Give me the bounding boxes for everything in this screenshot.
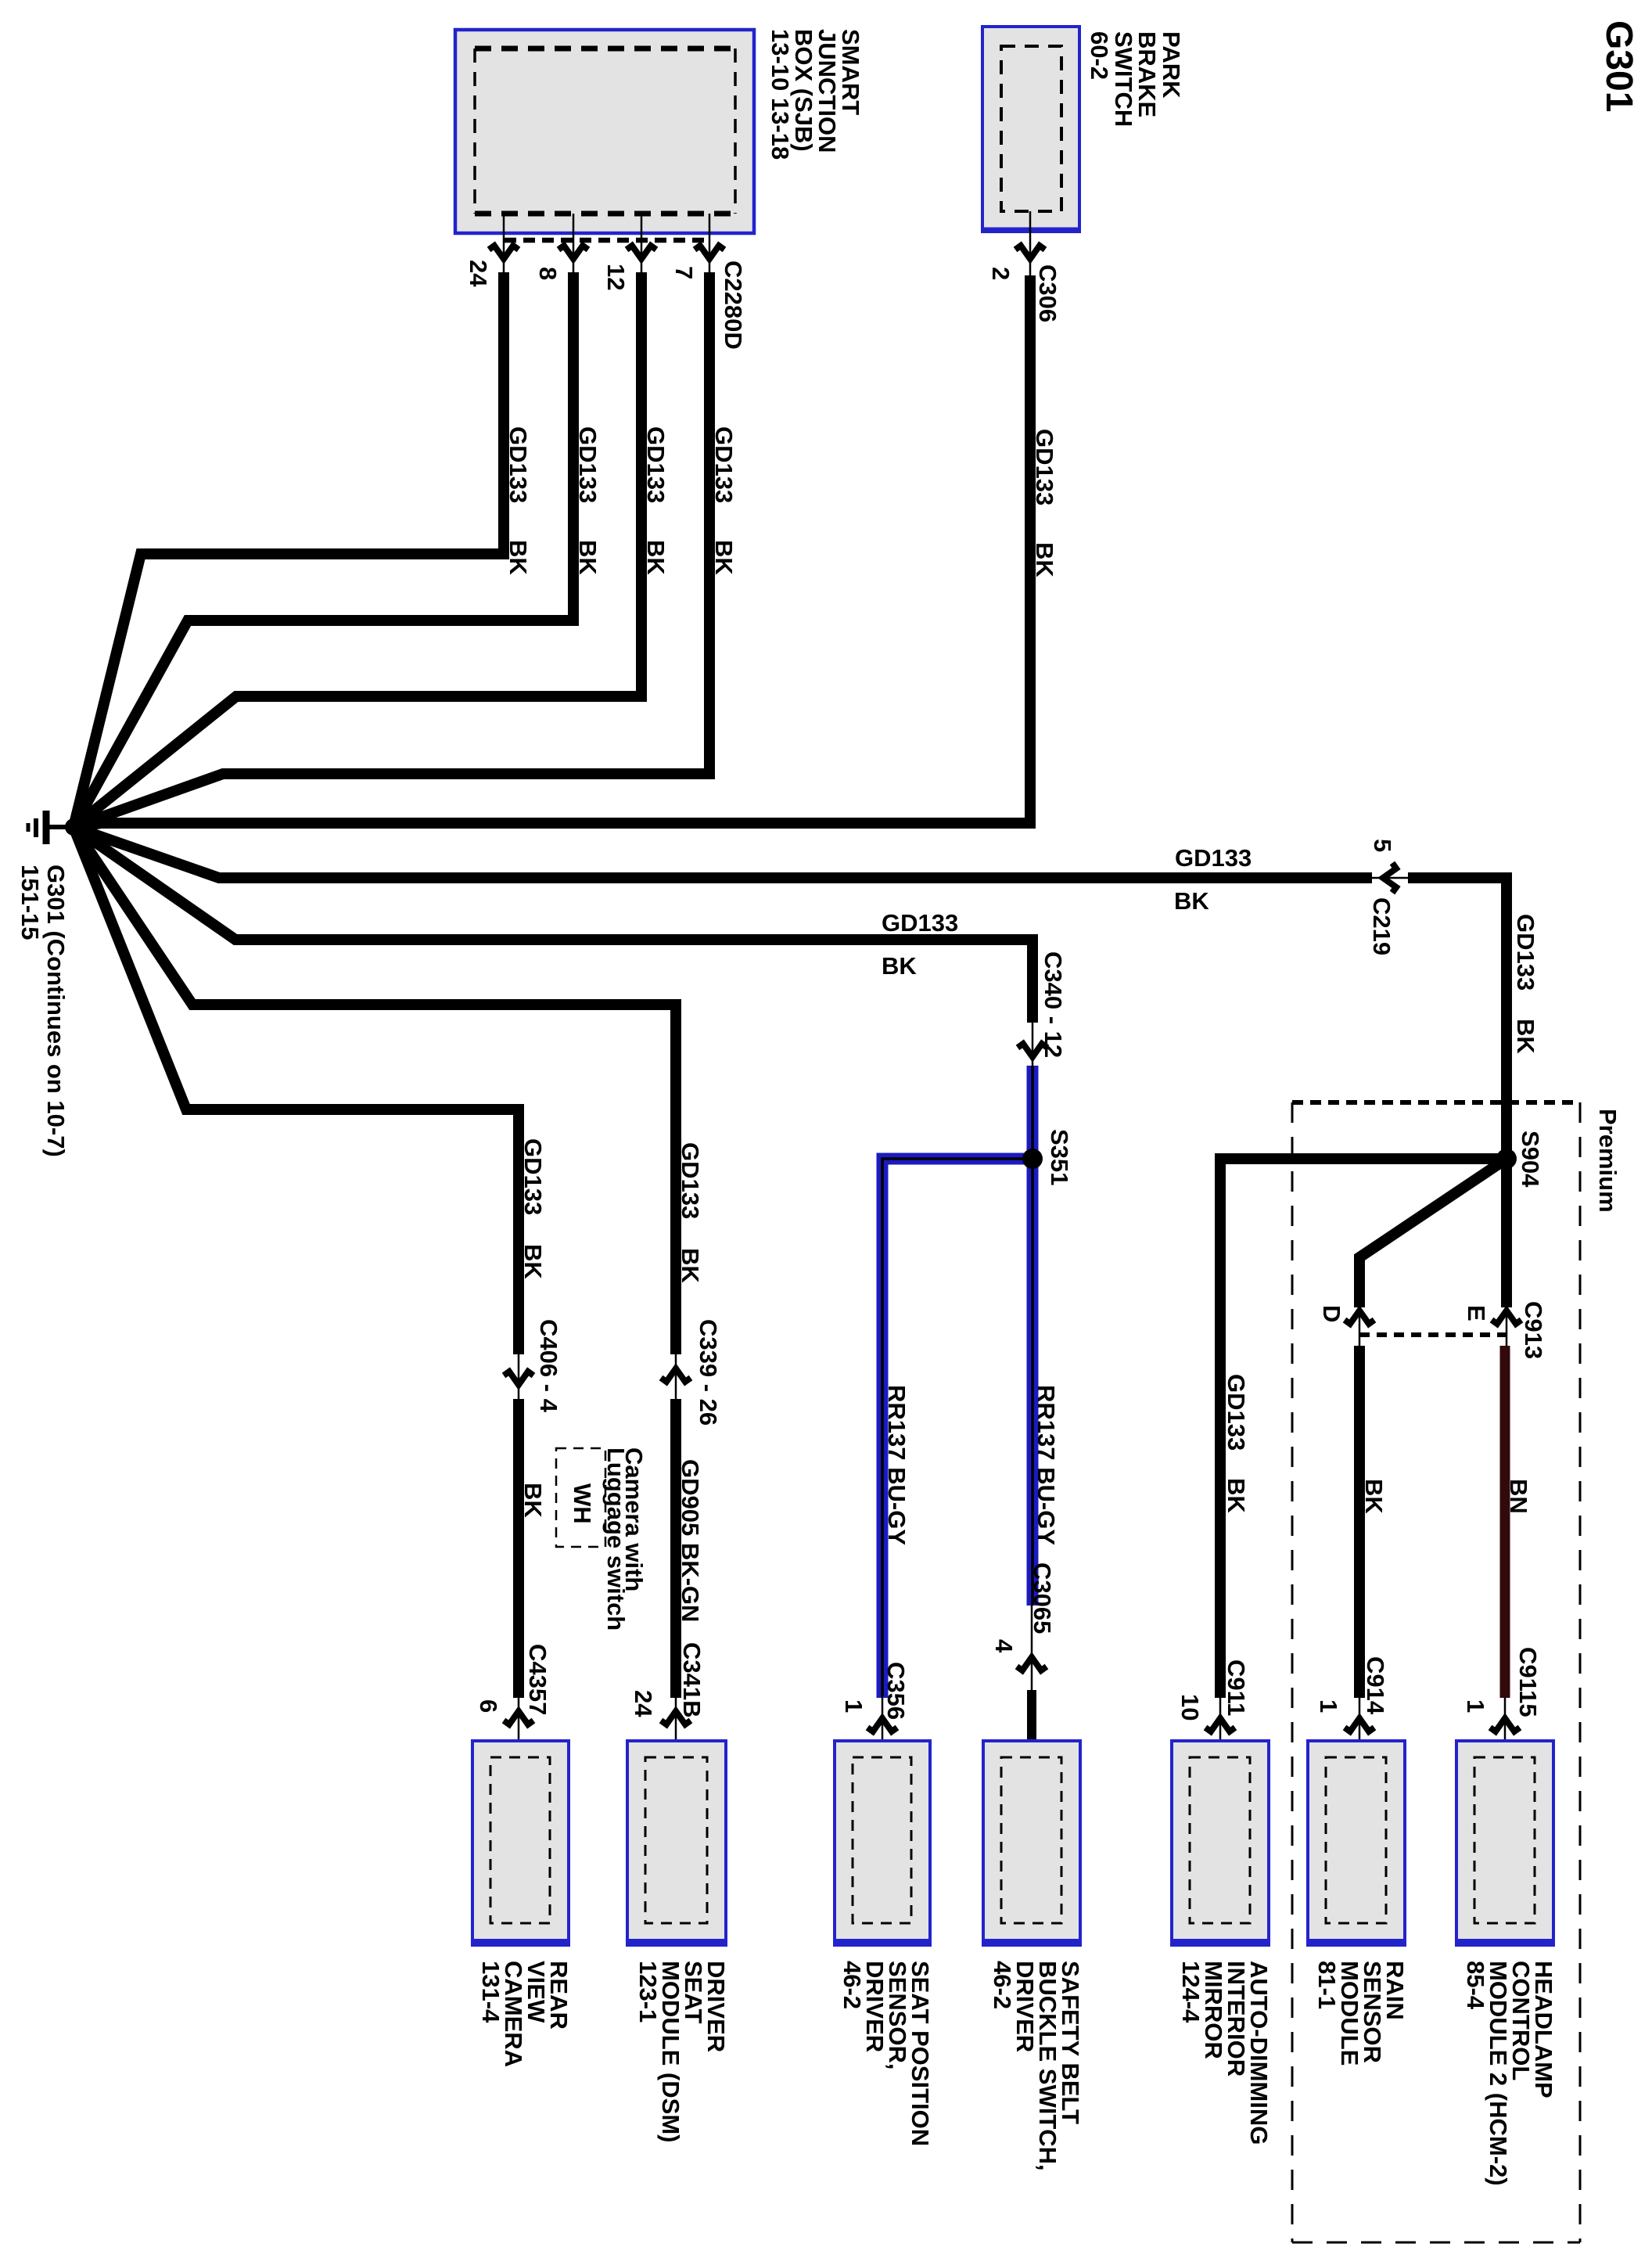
svg-text:C306: C306	[1034, 264, 1061, 322]
label SMART JUNCTION BOX (SJB) 13-10 13-18	[767, 29, 864, 160]
svg-text:85-4: 85-4	[1462, 1961, 1489, 2010]
component box Rear View Camera 131-4	[472, 1741, 569, 1945]
connector C219 pin 5 in-line arrow	[1368, 839, 1408, 955]
option box WH	[556, 1448, 605, 1547]
connector C406 pin 4 in-line arrow	[504, 1319, 562, 1413]
svg-text:C911: C911	[1223, 1659, 1250, 1716]
connector C911 pin 10 arrow	[1176, 1659, 1250, 1760]
svg-text:BK: BK	[882, 952, 917, 980]
wire GD133 BK from SJB pin 8 to G301	[74, 272, 573, 827]
svg-text:BK: BK	[1031, 542, 1058, 577]
svg-text:7: 7	[670, 266, 698, 279]
label GD133 BK (mirror wire)	[1223, 1374, 1250, 1513]
svg-text:BK: BK	[519, 1483, 547, 1518]
svg-text:BK: BK	[710, 540, 738, 575]
svg-text:BK: BK	[1174, 887, 1209, 915]
connector C9115 pin 1 arrow	[1462, 1647, 1542, 1760]
svg-text:GD133: GD133	[1223, 1374, 1250, 1451]
svg-text:C340 - 12: C340 - 12	[1040, 951, 1067, 1058]
wire GD133 BK from SJB pin 24 to G301	[74, 272, 504, 827]
svg-text:C356: C356	[882, 1662, 910, 1720]
svg-text:C3065: C3065	[1029, 1562, 1056, 1634]
svg-text:Luggage switch: Luggage switch	[602, 1447, 630, 1631]
wire GD905 BK-GN from C339 to DSM	[670, 1399, 681, 1698]
svg-text:1: 1	[1315, 1699, 1342, 1713]
option region box Premium (dashed)	[1292, 1102, 1580, 2242]
label GD133 BK (camera wire)	[519, 1138, 547, 1279]
svg-text:BK: BK	[642, 540, 670, 575]
svg-text:BK: BK	[677, 1248, 704, 1283]
svg-text:BK: BK	[574, 540, 602, 575]
svg-text:24: 24	[630, 1690, 657, 1717]
svg-text:C2280D: C2280D	[720, 261, 747, 350]
connector C3065 pin 4 arrow	[990, 1562, 1056, 1690]
label GD133 BK (DSM wire)	[677, 1142, 704, 1283]
svg-text:BN: BN	[1505, 1479, 1532, 1514]
connector C913 cavity E arrow	[1463, 1301, 1547, 1359]
component box Headlamp Control Module 2 (HCM-2) 85-4	[1456, 1741, 1553, 1945]
connector C340 pin 12 in-line arrow	[1018, 951, 1067, 1067]
svg-text:S351: S351	[1046, 1129, 1073, 1185]
wire GD133 BK from SJB pin 7 to G301	[74, 272, 709, 827]
svg-text:151-15: 151-15	[16, 865, 44, 940]
label PARK BRAKE SWITCH 60-2	[1086, 31, 1185, 127]
svg-text:GD133: GD133	[642, 426, 670, 503]
connector C913 dashed tie line	[1359, 1332, 1507, 1337]
svg-text:S904: S904	[1517, 1131, 1544, 1188]
svg-text:BK: BK	[519, 1244, 547, 1279]
wire BK from C913-D to rain sensor C914	[1354, 1346, 1365, 1698]
pin 8 of SJB connector C2280D	[534, 214, 588, 280]
pin 2 and connector C306	[987, 211, 1061, 322]
svg-text:Premium: Premium	[1594, 1109, 1621, 1213]
label GD133 BK (pin 24 wire)	[505, 426, 532, 575]
svg-text:RR137 BU-GY: RR137 BU-GY	[1032, 1385, 1060, 1545]
connector C341B pin 24 arrow	[630, 1642, 706, 1760]
label GD133 BK (pin 7 wire)	[710, 426, 738, 575]
connector C913 cavity D arrow	[1318, 1305, 1374, 1346]
svg-text:60-2: 60-2	[1086, 31, 1113, 80]
svg-text:81-1: 81-1	[1313, 1961, 1341, 2009]
svg-text:6: 6	[475, 1699, 502, 1713]
svg-text:G301 (Continues on 10-7): G301 (Continues on 10-7)	[42, 865, 70, 1157]
svg-text:1: 1	[840, 1699, 867, 1713]
svg-text:GD905 BK-GN: GD905 BK-GN	[677, 1459, 704, 1622]
svg-text:WH: WH	[569, 1483, 596, 1524]
connector C914 pin 1 arrow	[1315, 1656, 1389, 1760]
svg-text:24: 24	[465, 260, 492, 287]
wire GD133 BK from G301 to C219	[74, 827, 1372, 878]
wire from S904 down to C913 cavity E	[1501, 1159, 1512, 1307]
svg-text:GD133: GD133	[1175, 844, 1252, 872]
svg-text:10: 10	[1176, 1694, 1204, 1721]
pin 24 of SJB connector C2280D	[465, 214, 519, 287]
svg-text:BK: BK	[1512, 1019, 1539, 1054]
svg-text:123-1: 123-1	[634, 1961, 662, 2023]
label Rear View Camera 131-4	[477, 1961, 573, 2067]
svg-text:GD133: GD133	[1512, 914, 1539, 991]
connector C2280D dashed bus line	[505, 238, 709, 243]
wire RR137 BU-GY from S351 to C356	[882, 1159, 1032, 1698]
svg-text:D: D	[1318, 1305, 1345, 1322]
wire from S904 to C913 cavity D	[1359, 1159, 1507, 1307]
svg-text:C9115: C9115	[1514, 1647, 1542, 1717]
label GD133 BK (park brake wire)	[1031, 429, 1058, 577]
wire BK from C406 to rear view camera	[513, 1399, 524, 1698]
label Driver Seat Module (DSM) 123-1	[634, 1961, 730, 2142]
svg-text:4: 4	[990, 1639, 1018, 1653]
svg-text:BK: BK	[1360, 1479, 1388, 1514]
svg-text:2: 2	[987, 267, 1015, 280]
svg-text:GD133: GD133	[505, 426, 532, 503]
svg-text:GD133: GD133	[1031, 429, 1058, 505]
svg-text:46-2: 46-2	[839, 1961, 866, 2009]
wire BN from C913-E to HCM-2 C9115	[1500, 1346, 1510, 1698]
splice S904	[1496, 1149, 1517, 1169]
svg-text:GD133: GD133	[710, 426, 738, 503]
component box Safety Belt Buckle Switch Driver 46-2	[983, 1741, 1080, 1945]
svg-text:C339 - 26: C339 - 26	[695, 1319, 722, 1426]
svg-text:C914: C914	[1362, 1656, 1389, 1715]
ground G301 symbol	[28, 811, 77, 844]
splice S351	[1022, 1149, 1043, 1169]
svg-text:124-4: 124-4	[1177, 1961, 1205, 2023]
svg-text:1: 1	[1462, 1699, 1489, 1713]
svg-text:C4357: C4357	[524, 1644, 551, 1715]
label Rain Sensor Module 81-1	[1313, 1961, 1409, 2066]
component box Park Brake Switch	[982, 27, 1079, 232]
component box Rain Sensor Module 81-1	[1308, 1741, 1405, 1945]
connector C339 pin 26 in-line arrow	[661, 1319, 722, 1426]
svg-text:C219: C219	[1368, 897, 1395, 955]
component box Smart Junction Box (SJB)	[455, 30, 754, 233]
wire GD133 BK from park brake switch C306 to G301	[74, 275, 1030, 827]
svg-text:13-10 13-18: 13-10 13-18	[767, 29, 794, 160]
wire GD133 BK from G301 to C339	[74, 827, 676, 1354]
label Auto-Dimming Interior Mirror 124-4	[1177, 1961, 1273, 2145]
pin 7 of SJB connector C2280D	[670, 214, 724, 279]
wire GD133 BK from G301 to C406	[74, 827, 519, 1354]
wire stub into safety belt buckle switch	[1027, 1690, 1036, 1742]
svg-text:C913: C913	[1520, 1301, 1547, 1359]
svg-text:E: E	[1463, 1305, 1490, 1321]
connector C356 pin 1 arrow	[840, 1662, 910, 1760]
svg-text:GD133: GD133	[677, 1142, 704, 1219]
note Camera with Luggage switch	[602, 1447, 648, 1631]
label GD133 BK (C219 to S904 wire)	[1512, 914, 1539, 1054]
svg-text:SWITCH: SWITCH	[1110, 31, 1137, 127]
svg-text:C341B: C341B	[678, 1642, 706, 1718]
svg-text:GD133: GD133	[574, 426, 602, 503]
svg-text:8: 8	[534, 267, 562, 280]
svg-text:C406 - 4: C406 - 4	[535, 1319, 562, 1413]
svg-text:BK: BK	[505, 540, 532, 575]
label Seat Position Sensor Driver 46-2	[839, 1961, 934, 2146]
svg-text:GD133: GD133	[882, 909, 958, 937]
svg-text:5: 5	[1369, 839, 1396, 852]
connector C4357 pin 6 arrow	[475, 1644, 551, 1760]
svg-text:46-2: 46-2	[989, 1961, 1016, 2009]
label Safety Belt Buckle Switch Driver 46-2	[989, 1961, 1084, 2171]
svg-text:G301: G301	[1598, 20, 1639, 112]
svg-text:131-4: 131-4	[477, 1961, 505, 2023]
svg-text:RR137 BU-GY: RR137 BU-GY	[883, 1385, 910, 1545]
svg-text:GD133: GD133	[519, 1138, 547, 1215]
component box Seat Position Sensor Driver 46-2	[835, 1741, 930, 1945]
wire GD133 BK from G301 to C340	[74, 827, 1032, 1023]
wire GD133 BK from SJB pin 12 to G301	[74, 272, 641, 827]
svg-text:BK: BK	[1223, 1478, 1250, 1513]
wire GD133 BK from C219 to splice S904	[1408, 878, 1507, 1307]
label GD133 BK (pin 12 wire)	[642, 426, 670, 575]
label GD133 BK (pin 8 wire)	[574, 426, 602, 575]
component box Driver Seat Module (DSM) 123-1	[627, 1741, 726, 1945]
svg-text:12: 12	[602, 264, 630, 290]
label G301 (Continues on 10-7) 151-15	[16, 865, 70, 1157]
svg-text:PARK: PARK	[1158, 31, 1185, 99]
component box Auto-Dimming Interior Mirror 124-4	[1172, 1741, 1269, 1945]
node: ground fan vertex	[65, 818, 82, 836]
label Headlamp Control Module 2 (HCM-2) 85-4	[1462, 1961, 1557, 2186]
wire GD133 BK from S904 to auto-dimming mirror C911	[1220, 1159, 1507, 1698]
wire RR137 BU-GY from C340 through splice S351 to C3065	[1027, 1066, 1039, 1606]
pin 12 of SJB connector C2280D	[602, 214, 656, 290]
